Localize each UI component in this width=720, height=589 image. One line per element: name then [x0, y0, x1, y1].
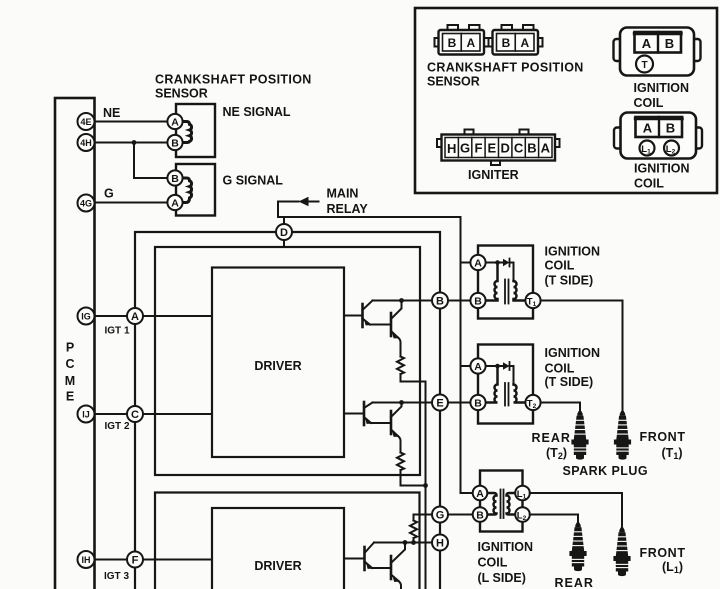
svg-text:D: D [501, 140, 510, 155]
svg-text:H: H [447, 141, 456, 156]
transistor Q1 (pair1 input) [344, 301, 391, 328]
svg-text:A: A [466, 36, 475, 50]
PCME terminal IG [78, 308, 95, 325]
igniter terminal F [127, 552, 143, 568]
svg-text:IGNITER: IGNITER [468, 168, 519, 182]
wire collector rail to B [373, 300, 433, 302]
svg-text:B: B [171, 173, 179, 185]
PCME label [65, 341, 75, 404]
driver 1 box [212, 268, 344, 458]
svg-text:IGT 1: IGT 1 [105, 326, 130, 337]
legend box [415, 8, 717, 193]
svg-text:SENSOR: SENSOR [155, 87, 208, 101]
svg-text:IJ: IJ [82, 409, 90, 419]
NE pickup sensor box [176, 104, 215, 157]
svg-text:SPARK PLUG: SPARK PLUG [563, 464, 649, 478]
svg-text:C: C [65, 357, 74, 371]
spark plug front L1 [613, 528, 630, 577]
svg-text:COIL: COIL [478, 556, 508, 570]
L-coil secondary winding [507, 493, 516, 515]
legend: crank sensor connector 2 [489, 25, 543, 55]
wire T2 to rear spark plug [541, 403, 581, 412]
legend label IGNITION COIL (L) [634, 162, 690, 191]
wire T1 to front spark plug [541, 301, 623, 412]
svg-text:DRIVER: DRIVER [254, 359, 301, 373]
junction dot sense line [423, 483, 428, 488]
ignition coil 1 (T side) box [478, 246, 533, 319]
igniter terminal C [127, 406, 143, 422]
igniter outer case [135, 232, 440, 589]
wire IGT2 from PCME to driver1 [95, 413, 213, 415]
wire collector rail to E [373, 402, 433, 404]
wire collector rail to H [374, 542, 432, 544]
svg-text:B: B [666, 121, 675, 136]
svg-text:(T1): (T1) [662, 446, 683, 461]
svg-text:B: B [474, 398, 482, 410]
junction dot pair1 collector [399, 298, 404, 303]
svg-text:NE: NE [103, 106, 120, 120]
svg-text:(L1): (L1) [662, 560, 683, 575]
svg-text:B: B [474, 296, 482, 308]
G sensor terminal A [167, 195, 182, 210]
L-coil primary winding [487, 493, 497, 515]
svg-text:RELAY: RELAY [327, 202, 369, 216]
wire IGT3 from PCME to driver2 [95, 559, 213, 561]
svg-text:A: A [541, 140, 551, 155]
svg-text:C: C [131, 409, 139, 421]
svg-text:FRONT: FRONT [640, 430, 686, 444]
svg-text:IGNITION: IGNITION [545, 346, 601, 360]
svg-text:4G: 4G [80, 198, 92, 208]
L-coil terminal B [473, 507, 488, 522]
coil2 terminal T2 [525, 395, 540, 410]
coil2 core [504, 383, 506, 406]
svg-text:IGT 2: IGT 2 [105, 421, 130, 432]
label REAR (T2) [532, 430, 686, 589]
svg-text:E: E [66, 390, 74, 404]
spark plug rear L2 [569, 523, 586, 572]
coil2 terminal B [470, 395, 485, 410]
resistor R2 (pair2 emitter) [397, 453, 404, 471]
svg-text:IGNITION: IGNITION [634, 81, 690, 95]
terminal D stubs [283, 217, 285, 225]
coil2 primary winding [486, 366, 498, 403]
svg-text:CRANKSHAFT POSITION: CRANKSHAFT POSITION [155, 73, 312, 87]
svg-text:B: B [665, 36, 674, 51]
legend: ignition coil T connector [614, 28, 701, 76]
wire R2 to sense line [401, 470, 426, 486]
svg-text:IGT 3: IGT 3 [104, 571, 129, 582]
PCME terminal 4G [78, 195, 95, 212]
svg-text:IGNITION: IGNITION [478, 540, 534, 554]
junction dot R3 bottom [411, 540, 416, 545]
svg-text:H: H [436, 538, 444, 550]
svg-text:A: A [520, 36, 529, 50]
legend label CRANKSHAFT POSITION SENSOR [427, 61, 584, 89]
svg-text:COIL: COIL [634, 96, 664, 110]
coil2 terminal A [470, 358, 485, 373]
svg-text:(L SIDE): (L SIDE) [478, 571, 526, 585]
svg-text:4E: 4E [80, 117, 91, 127]
label MAIN RELAY [327, 187, 369, 217]
coil1 terminal T1 [525, 293, 540, 308]
svg-text:NE SIGNAL: NE SIGNAL [223, 105, 291, 119]
svg-text:A: A [131, 311, 139, 323]
label CRANKSHAFT POSITION SENSOR [155, 73, 312, 101]
svg-text:F: F [475, 140, 483, 155]
G pickup coil [182, 178, 192, 203]
L-coil terminal A [473, 486, 488, 501]
svg-text:B: B [436, 296, 444, 308]
coil1 internal wiring: dot and diode D1 [486, 259, 514, 282]
label IGNITION COIL (T SIDE) 1 [545, 245, 601, 288]
ignition coil 2 (T side) box [478, 345, 533, 424]
svg-text:A: A [474, 258, 482, 270]
svg-text:A: A [643, 121, 653, 136]
sense line down [425, 382, 427, 589]
svg-text:A: A [171, 117, 179, 129]
svg-text:G SIGNAL: G SIGNAL [223, 174, 284, 188]
driver 2 box [212, 508, 344, 589]
NE sensor terminal B [167, 135, 182, 150]
svg-text:COIL: COIL [545, 259, 575, 273]
igniter terminal H [432, 535, 448, 551]
L-coil core [500, 490, 502, 519]
svg-text:(T SIDE): (T SIDE) [545, 274, 594, 288]
wire R1 to sense line [401, 374, 426, 382]
svg-text:IGNITION: IGNITION [634, 162, 690, 176]
svg-text:REAR: REAR [532, 431, 571, 445]
PCME ECU box [55, 98, 95, 589]
svg-text:B: B [171, 138, 179, 150]
wire G signal (4G to sensor A) [95, 202, 171, 204]
svg-text:MAIN: MAIN [327, 187, 359, 201]
transistor Q5 (pair3 input) [344, 543, 391, 571]
svg-text:B: B [527, 140, 536, 155]
transistor Q2 (pair1 output) [391, 301, 402, 357]
supply stub to coil2 A [461, 365, 473, 367]
svg-text:G: G [460, 140, 470, 155]
igniter inner box 2 [155, 493, 420, 589]
coil1 core [504, 280, 506, 304]
coil2 secondary winding [514, 385, 526, 403]
spark plug rear T2 [571, 411, 588, 460]
wire NE signal (4E to sensor A) [95, 121, 171, 123]
PCME terminal 4E [78, 113, 95, 130]
svg-text:IG: IG [81, 311, 91, 321]
label IGNITION COIL (T SIDE) 2 [545, 346, 601, 389]
supply stub to L-coil A [461, 492, 475, 494]
coil1 secondary winding [514, 281, 526, 301]
legend: crank sensor connector 1 [435, 25, 489, 55]
wire junction to G-sensor B [134, 143, 170, 179]
svg-text:SENSOR: SENSOR [427, 75, 480, 89]
label IGNITION COIL (L SIDE) [478, 540, 534, 585]
svg-text:(T2): (T2) [546, 446, 567, 461]
wire B to coil1 [440, 300, 472, 302]
L-coil terminal L2 [515, 507, 530, 522]
svg-text:A: A [642, 36, 652, 51]
svg-text:B: B [448, 36, 457, 50]
svg-text:DRIVER: DRIVER [254, 559, 301, 573]
supply stub to coil1 A [461, 262, 473, 264]
igniter terminal A [127, 308, 143, 324]
resistor R1 (pair1 emitter) [397, 357, 404, 375]
resistor R3 (G-H) [410, 521, 417, 538]
legend: ignition coil L connector [614, 113, 702, 159]
coil2 internal wiring: dot and diode D2 [486, 362, 514, 385]
svg-text:E: E [487, 140, 496, 155]
svg-text:C: C [514, 140, 524, 155]
igniter terminal G [432, 507, 448, 523]
PCME terminal 4H [78, 134, 95, 151]
svg-text:COIL: COIL [634, 177, 664, 191]
wire R3 to H rail [413, 538, 415, 543]
svg-text:D: D [280, 227, 288, 239]
svg-text:4H: 4H [80, 138, 92, 148]
svg-text:E: E [436, 398, 443, 410]
svg-text:M: M [65, 374, 75, 388]
coil1 primary winding [486, 263, 498, 301]
transistor Q6 (pair3 output) [391, 543, 405, 589]
L-coil terminal L1 [515, 486, 530, 501]
svg-text:IGNITION: IGNITION [545, 245, 601, 259]
svg-text:T: T [641, 60, 647, 71]
PCME terminal IJ [78, 406, 95, 423]
wire E to coil2 [440, 402, 472, 404]
wire L2 to rear spark plug [530, 515, 578, 523]
igniter inner box 1 [155, 247, 420, 475]
transistor Q3 (pair2 input) [344, 402, 391, 425]
svg-text:P: P [66, 341, 74, 355]
transistor Q4 (pair2 output) [391, 403, 402, 453]
svg-text:G: G [104, 187, 114, 201]
svg-text:COIL: COIL [545, 362, 575, 376]
junction dot pair2 collector [399, 400, 404, 405]
coil1 terminal B [470, 293, 485, 308]
svg-text:IH: IH [82, 555, 91, 565]
coil1 terminal A [470, 255, 485, 270]
main relay arrow [278, 197, 319, 217]
wire 4H to sensor B [95, 142, 171, 144]
igniter terminal B [432, 293, 448, 309]
ignition coil 3 (L side) box [480, 471, 523, 532]
svg-text:B: B [502, 36, 511, 50]
igniter terminal E [432, 395, 448, 411]
svg-text:A: A [476, 488, 484, 500]
wire G to R3 [414, 515, 433, 521]
terminal D [276, 224, 292, 240]
NE sensor terminal A [167, 114, 182, 129]
wire L1 to front spark plug [530, 493, 622, 528]
svg-text:A: A [171, 198, 179, 210]
G pickup sensor box [176, 164, 215, 216]
svg-text:REAR: REAR [555, 576, 594, 589]
spark plug front T1 [614, 411, 631, 460]
svg-text:A: A [474, 361, 482, 373]
svg-text:FRONT: FRONT [640, 546, 686, 560]
svg-text:F: F [132, 555, 139, 567]
junction dot on 4H wire [132, 140, 137, 145]
wire IGT1 from PCME to driver1 [95, 315, 213, 317]
svg-text:CRANKSHAFT POSITION: CRANKSHAFT POSITION [427, 61, 584, 75]
svg-text:G: G [436, 510, 445, 522]
legend: igniter connector [437, 130, 560, 166]
svg-text:(T SIDE): (T SIDE) [545, 375, 594, 389]
NE pickup coil [182, 122, 192, 143]
G sensor terminal B [167, 170, 182, 185]
svg-text:B: B [476, 510, 484, 522]
legend label IGNITION COIL (T) [634, 81, 690, 110]
+B rail from main relay [278, 217, 461, 493]
wire G to L-coil B [440, 514, 475, 516]
PCME terminal IH [78, 551, 95, 568]
junction dot pair3 collector [403, 540, 408, 545]
